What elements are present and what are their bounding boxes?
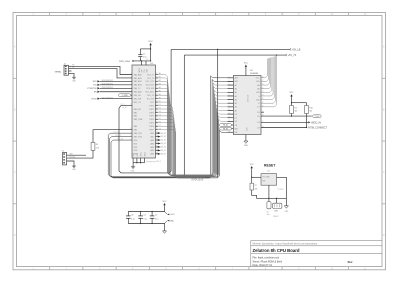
svg-text:C9: C9	[267, 212, 269, 214]
svg-text:GND: GND	[170, 220, 175, 222]
svg-text:RB1: RB1	[134, 112, 138, 114]
svg-text:RESET: RESET	[273, 216, 278, 218]
svg-text:D1: D1	[235, 118, 237, 120]
svg-text:D2: D2	[159, 108, 161, 110]
svg-text:D6: D6	[159, 121, 161, 123]
svg-text:GND: GND	[72, 169, 76, 171]
svg-text:PG_D3: PG_D3	[118, 139, 123, 141]
svg-text:RC7_RX: RC7_RX	[147, 98, 155, 100]
svg-text:A: A	[383, 46, 385, 49]
svg-text:RB2: RB2	[134, 116, 138, 118]
svg-text:38: 38	[156, 152, 158, 154]
svg-text:VPP: VPP	[142, 69, 144, 72]
svg-text:A3: A3	[235, 98, 237, 101]
svg-text:VSS: VSS	[133, 153, 135, 156]
svg-text:27C512: 27C512	[247, 94, 249, 102]
svg-text:28: 28	[262, 76, 264, 78]
svg-text:DATA_BUS: DATA_BUS	[192, 179, 204, 182]
svg-text:15: 15	[156, 73, 158, 75]
svg-text:0.1u: 0.1u	[155, 219, 159, 221]
svg-text:RD7: RD7	[150, 102, 154, 104]
svg-text:17: 17	[156, 80, 158, 82]
svg-text:D3: D3	[159, 111, 161, 113]
svg-text:D4_IO: D4_IO	[161, 147, 167, 149]
svg-text:+5V_LB: +5V_LB	[292, 48, 301, 51]
svg-text:26: 26	[156, 111, 158, 113]
svg-text:A6: A6	[235, 87, 237, 90]
svg-text:PSP5: PSP5	[149, 123, 154, 125]
svg-text:RC4_SDI: RC4_SDI	[146, 88, 154, 90]
svg-text:PSP6: PSP6	[149, 126, 154, 128]
svg-text:RA3_AN3: RA3_AN3	[134, 84, 142, 87]
svg-text:D0: D0	[159, 101, 161, 103]
svg-text:D: D	[14, 234, 16, 237]
svg-text:C: C	[383, 171, 385, 174]
svg-text:AN1: AN1	[151, 135, 155, 138]
svg-text:VCC GND: VCC GND	[262, 177, 270, 179]
svg-text:RA5_AN4: RA5_AN4	[134, 91, 142, 94]
svg-text:VSS: VSS	[137, 153, 139, 156]
svg-text:0.1u: 0.1u	[143, 219, 147, 221]
svg-text:OSC2: OSC2	[145, 152, 147, 156]
svg-text:RB3_PGM: RB3_PGM	[134, 119, 143, 121]
svg-text:VCC: VCC	[250, 164, 254, 166]
svg-text:PG_D1: PG_D1	[114, 132, 119, 134]
svg-text:21: 21	[156, 94, 158, 96]
svg-text:(c)sysprog @ fl5-4: (c)sysprog @ fl5-4	[146, 161, 161, 163]
svg-text:A14: A14	[235, 77, 238, 80]
svg-text:PSP1: PSP1	[149, 109, 154, 111]
svg-text:TC1262: TC1262	[277, 189, 283, 191]
svg-text:37: 37	[156, 149, 158, 151]
svg-text:5k1: 5k1	[294, 111, 297, 113]
svg-text:10u: 10u	[267, 214, 270, 216]
svg-text:A5: A5	[235, 91, 237, 94]
svg-text:D24 10/CDC: D24 10/CDC	[102, 80, 114, 82]
svg-text:32: 32	[156, 132, 158, 134]
svg-text:SW1: SW1	[274, 210, 278, 212]
svg-text:A10: A10	[256, 98, 259, 101]
svg-text:D3_IO: D3_IO	[161, 143, 167, 145]
svg-text:RB4: RB4	[134, 126, 138, 128]
svg-text:CTS/RTS0: CTS/RTS0	[87, 88, 98, 90]
svg-text:PSP4: PSP4	[149, 119, 154, 121]
svg-text:D0: D0	[235, 114, 237, 116]
svg-text:23: 23	[156, 101, 158, 103]
svg-text:5k1: 5k1	[309, 111, 312, 113]
svg-text:VCC: VCC	[163, 201, 168, 203]
svg-text:27: 27	[262, 80, 264, 82]
svg-text:RC0_T1: RC0_T1	[147, 74, 154, 76]
svg-text:PSP7: PSP7	[149, 130, 154, 132]
svg-text:CK: CK	[159, 128, 162, 130]
svg-text:D7: D7	[257, 107, 259, 109]
svg-text:Rev:: Rev:	[348, 261, 354, 264]
svg-text:OSC1: OSC1	[141, 152, 143, 156]
svg-text:C6: C6	[131, 215, 133, 217]
svg-text:VCC: VCC	[290, 92, 295, 94]
svg-text:D2: D2	[235, 121, 237, 123]
svg-text:PB_A1: PB_A1	[223, 124, 228, 127]
svg-text:30: 30	[156, 125, 158, 127]
svg-text:D6: D6	[257, 112, 259, 114]
svg-text:D4: D4	[159, 115, 161, 117]
svg-text:A10: A10	[235, 127, 238, 130]
svg-text:24: 24	[156, 104, 158, 106]
svg-text:D0_IO: D0_IO	[161, 133, 167, 135]
svg-text:A4: A4	[235, 95, 237, 98]
svg-text:A2: A2	[235, 102, 237, 105]
svg-text:J1: J1	[62, 151, 64, 153]
svg-text:D5: D5	[257, 116, 259, 118]
svg-text:RC2_CCP: RC2_CCP	[146, 81, 155, 83]
svg-text:24: 24	[262, 91, 264, 93]
svg-text:RTS0: RTS0	[92, 98, 98, 100]
svg-text:Sheet: /Flash ROM & 8init/: Sheet: /Flash ROM & 8init/	[253, 260, 283, 263]
svg-text:D6_IO: D6_IO	[161, 153, 167, 155]
svg-text:RC3_SCK: RC3_SCK	[146, 85, 155, 87]
svg-text:C5: C5	[143, 53, 145, 55]
svg-text:D1: D1	[159, 104, 161, 106]
svg-text:A: A	[14, 46, 16, 49]
svg-text:29: 29	[156, 121, 158, 123]
svg-text:Date: 2022-07-31: Date: 2022-07-31	[253, 264, 273, 267]
svg-text:RX_1: RX_1	[121, 104, 125, 106]
svg-text:RA0_AN0: RA0_AN0	[134, 73, 142, 76]
svg-text:54S86B4: 54S86B4	[250, 73, 259, 75]
svg-text:RD1: RD1	[134, 143, 138, 145]
svg-text:GND: GND	[244, 145, 249, 147]
svg-text:RA1_AN1: RA1_AN1	[134, 77, 142, 80]
svg-text:TX0: TX0	[93, 85, 98, 87]
svg-text:File: flash_nonlinien.sch: File: flash_nonlinien.sch	[253, 256, 280, 259]
svg-text:RX0: RX0	[93, 81, 98, 83]
svg-text:A7: A7	[235, 84, 237, 87]
svg-text:RC1_T2: RC1_T2	[147, 78, 154, 80]
svg-text:25: 25	[156, 108, 158, 110]
svg-text:J_GND: J_GND	[121, 95, 128, 97]
svg-text:PSP3: PSP3	[149, 116, 154, 118]
svg-text:31: 31	[156, 128, 158, 130]
svg-text:D7: D7	[159, 125, 161, 127]
svg-text:A11: A11	[257, 91, 260, 94]
svg-text:RA4_T0: RA4_T0	[134, 87, 141, 90]
svg-text:EN: EN	[94, 91, 97, 93]
svg-text:VCC: VCC	[244, 63, 249, 65]
svg-text:D4: D4	[257, 122, 259, 124]
svg-text:-MTM_CONNECT: -MTM_CONNECT	[308, 127, 328, 130]
svg-text:GND: GND	[72, 80, 76, 82]
svg-text:SERIAL: SERIAL	[55, 70, 62, 73]
svg-text:D3: D3	[257, 127, 259, 129]
svg-text:33: 33	[156, 135, 158, 137]
svg-text:PG_D2: PG_D2	[116, 135, 121, 137]
svg-text:25: 25	[262, 87, 264, 89]
svg-text:10k: 10k	[255, 188, 258, 190]
svg-text:D: D	[383, 234, 385, 237]
svg-text:34: 34	[156, 139, 158, 141]
svg-text:RESET: RESET	[264, 164, 276, 168]
svg-text:PSP2: PSP2	[149, 112, 154, 114]
svg-text:B: B	[14, 108, 16, 111]
svg-text:RC5_SDO: RC5_SDO	[146, 92, 155, 94]
svg-text:RB7_PGD: RB7_PGD	[134, 136, 143, 138]
svg-text:RB6_PGC: RB6_PGC	[134, 133, 143, 135]
svg-text:27: 27	[156, 114, 158, 116]
svg-text:J0_10: J0_10	[122, 107, 126, 109]
svg-text:20: 20	[156, 90, 158, 92]
svg-text:GND: GND	[131, 170, 136, 172]
svg-text:D5: D5	[159, 118, 161, 120]
svg-text:26: 26	[262, 84, 264, 86]
svg-text:U4: U4	[250, 70, 253, 72]
svg-text:32: 32	[146, 59, 148, 61]
svg-text:+5V_7S: +5V_7S	[288, 54, 297, 57]
svg-text:A12: A12	[235, 80, 238, 83]
svg-text:A1: A1	[235, 106, 237, 109]
svg-text:RA2_AN2: RA2_AN2	[134, 80, 142, 83]
svg-text:A0: A0	[235, 109, 237, 112]
svg-text:RST: RST	[262, 181, 265, 183]
svg-text:RB0_INT: RB0_INT	[134, 109, 142, 111]
svg-text:16: 16	[156, 76, 158, 78]
svg-text:T_NC: T_NC	[315, 116, 320, 118]
svg-text:0.1u: 0.1u	[131, 219, 135, 221]
svg-text:D1_IO: D1_IO	[161, 136, 167, 138]
svg-text:19: 19	[156, 87, 158, 89]
svg-text:-WDC_IN: -WDC_IN	[311, 121, 321, 124]
svg-text:C: C	[14, 171, 16, 174]
svg-text:U5: U5	[268, 170, 270, 172]
svg-text:AN2: AN2	[151, 139, 155, 142]
svg-text:D5_IO: D5_IO	[161, 150, 167, 152]
svg-text:RD2: RD2	[134, 147, 138, 149]
svg-text:A9: A9	[257, 87, 259, 90]
svg-text:36: 36	[156, 145, 158, 147]
svg-text:RD3: RD3	[134, 150, 138, 152]
svg-text:A13: A13	[256, 80, 259, 83]
svg-text:D25 10/CDC: D25 10/CDC	[102, 83, 114, 85]
svg-text:28: 28	[156, 118, 158, 120]
svg-text:AN5: AN5	[151, 149, 155, 152]
svg-text:GND: GND	[285, 211, 290, 213]
svg-text:D26 10/CDC: D26 10/CDC	[102, 87, 114, 89]
svg-text:23: 23	[262, 95, 264, 97]
svg-text:35: 35	[156, 142, 158, 144]
svg-text:21: 21	[262, 102, 264, 104]
svg-text:AN6: AN6	[151, 153, 155, 156]
svg-text:Zelatron 8h CPU Board: Zelatron 8h CPU Board	[253, 248, 300, 253]
svg-text:R10: R10	[309, 108, 312, 110]
svg-text:PSP0: PSP0	[149, 105, 154, 107]
svg-text:RE1_WR: RE1_WR	[134, 98, 142, 100]
svg-text:4.7k: 4.7k	[96, 148, 99, 150]
svg-text:A8: A8	[257, 84, 259, 87]
svg-text:D2_IO: D2_IO	[161, 140, 167, 142]
svg-text:22: 22	[156, 97, 158, 99]
svg-text:R7: R7	[255, 185, 257, 187]
svg-text:AN3: AN3	[151, 142, 155, 145]
svg-text:22: 22	[262, 98, 264, 100]
svg-text:PWR_FLAG: PWR_FLAG	[119, 60, 130, 63]
svg-text:R3: R3	[96, 144, 98, 146]
svg-text:RE2_CS: RE2_CS	[134, 102, 142, 104]
svg-text:20: 20	[262, 105, 264, 107]
svg-text:RB5: RB5	[134, 130, 138, 132]
svg-text:AN4: AN4	[151, 146, 155, 149]
svg-text:Michele Specialotto : https://: Michele Specialotto : https://handheld-d…	[253, 242, 318, 245]
svg-text:B: B	[383, 108, 385, 111]
svg-text:PB_A2: PB_A2	[223, 127, 228, 130]
svg-text:VCC: VCC	[148, 41, 153, 43]
svg-text:AN0: AN0	[151, 132, 155, 135]
svg-text:R4: R4	[294, 108, 296, 110]
svg-text:C8: C8	[143, 215, 145, 217]
svg-text:RD0: RD0	[134, 140, 138, 142]
svg-text:D14 10/CDC: D14 10/CDC	[102, 97, 114, 99]
svg-text:+VCC: +VCC	[170, 214, 176, 216]
svg-text:3.3u: 3.3u	[143, 57, 147, 59]
svg-text:RE0_RD: RE0_RD	[134, 95, 142, 97]
svg-text:J2: J2	[64, 63, 66, 65]
svg-text:C2: C2	[155, 215, 157, 217]
svg-text:18: 18	[156, 83, 158, 85]
svg-text:RC6_TX: RC6_TX	[147, 95, 155, 97]
